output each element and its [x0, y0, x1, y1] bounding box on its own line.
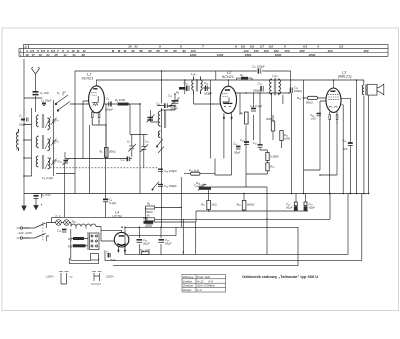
- wire left horizontals: [24, 98, 42, 176]
- svg-text:L₆L₇: L₆L₇: [191, 72, 197, 76]
- wire dropper to resistors: [71, 232, 88, 250]
- svg-text:50µF: 50µF: [286, 206, 293, 210]
- lamp Z1: [56, 220, 62, 226]
- capacitor C28 50uF: [137, 240, 143, 243]
- wire oscillator verticals: [151, 108, 162, 203]
- svg-text:C₂: C₂: [19, 114, 23, 118]
- svg-text:R₁₉: R₁₉: [72, 220, 77, 224]
- wire R5 column: [105, 125, 107, 159]
- wire y211 row: [196, 194, 308, 212]
- svg-text:R₁₀ 1kΩ: R₁₀ 1kΩ: [189, 168, 199, 172]
- volume potentiometer R16: [198, 184, 211, 191]
- svg-text:350pF: 350pF: [170, 107, 178, 111]
- svg-text:Krótkie: Krótkie: [183, 279, 192, 283]
- wire left bottom column: [42, 194, 146, 220]
- svg-text:C₁₃: C₁₃: [156, 102, 161, 106]
- svg-text:C₈ 5nF: C₈ 5nF: [41, 193, 51, 197]
- resistor R17: [207, 201, 211, 210]
- wire ground bus y193: [24, 193, 369, 195]
- wire y227 bus: [125, 227, 298, 265]
- antenna: [32, 67, 40, 80]
- svg-text:300: 300: [327, 49, 332, 53]
- svg-text:200pF: 200pF: [252, 89, 261, 93]
- wire tube L1 pins down: [83, 101, 106, 217]
- wire IF2 verticals: [272, 93, 283, 121]
- svg-text:C₁₂: C₁₂: [168, 94, 173, 98]
- capacitor C23 50pF: [236, 147, 241, 150]
- resistor R12: [280, 131, 283, 141]
- svg-text:R₇: R₇: [147, 214, 151, 218]
- svg-text:5nF: 5nF: [343, 147, 348, 151]
- wire AVC long: [291, 93, 293, 194]
- plug diagram 220V: [91, 272, 102, 285]
- resistor R8: [179, 87, 186, 90]
- switch W1 mains: [23, 222, 49, 240]
- svg-text:120V~: 120V~: [46, 275, 55, 279]
- svg-text:200pF: 200pF: [203, 92, 212, 96]
- wire y187 row: [198, 187, 267, 219]
- svg-text:R₈: R₈: [176, 91, 180, 95]
- wire L3 pins: [330, 112, 337, 194]
- svg-text:50µF: 50µF: [143, 242, 150, 246]
- mains terminals: [17, 227, 23, 239]
- wire x195 vertical: [196, 219, 267, 254]
- wire x303 vertical: [303, 80, 305, 194]
- wire y256 row: [105, 194, 362, 261]
- svg-text:4–12: 4–12: [197, 279, 204, 283]
- svg-text:70: 70: [164, 49, 168, 53]
- svg-text:4: 4: [316, 45, 319, 49]
- ground arrow main: [22, 202, 26, 211]
- svg-text:L: L: [20, 53, 22, 57]
- svg-text:2000: 2000: [308, 53, 316, 57]
- wire L3 grid resistor row: [304, 97, 327, 99]
- capacitor C24 100pF: [317, 114, 322, 116]
- capacitor C21: [258, 145, 263, 147]
- capacitor C18 100pF: [158, 169, 163, 171]
- transformer T1 (input coils band 1): [36, 114, 51, 130]
- capacitor C20: [251, 109, 256, 112]
- wire pot column: [209, 190, 244, 211]
- svg-text:49: 49: [80, 53, 85, 57]
- trimmer C7: [51, 159, 57, 166]
- wire y235 row: [129, 227, 176, 235]
- capacitor C19 100pF: [291, 88, 293, 94]
- svg-text:C₁ 5nF: C₁ 5nF: [40, 91, 49, 95]
- tube L3 6BL21: [326, 80, 341, 119]
- capacitor C29 50uF: [159, 240, 165, 243]
- svg-text:C₃: C₃: [56, 118, 60, 122]
- capacitor C10: [63, 159, 70, 166]
- wire HT top bus: [96, 80, 364, 85]
- svg-text:50pF: 50pF: [234, 151, 241, 155]
- svg-text:C₂₇: C₂₇: [104, 249, 109, 253]
- capacitor C2: [21, 118, 28, 122]
- band switch: [55, 92, 70, 111]
- svg-text:C₉: C₉: [106, 97, 110, 101]
- svg-text:UY1N: UY1N: [112, 215, 122, 219]
- variable capacitor C12 350pF: [171, 98, 180, 106]
- svg-text:R₆: R₆: [147, 202, 151, 206]
- svg-text:100: 100: [311, 117, 316, 121]
- svg-text:250: 250: [298, 49, 304, 53]
- svg-text:6CH21: 6CH21: [222, 75, 234, 79]
- svg-text:R₄ 1MΩ: R₄ 1MΩ: [115, 98, 125, 102]
- wire lamps feed: [51, 217, 147, 222]
- svg-text:140: 140: [253, 49, 258, 53]
- svg-text:17: 17: [31, 53, 35, 57]
- wire y219 row: [155, 194, 331, 220]
- svg-text:R₁₄: R₁₄: [297, 96, 302, 100]
- svg-text:1000: 1000: [190, 53, 197, 57]
- resistor R21: [73, 237, 84, 240]
- capacitor C11: [127, 157, 129, 162]
- svg-text:16: 16: [25, 53, 29, 57]
- svg-text:R₂₄ 1kΩ: R₂₄ 1kΩ: [140, 248, 150, 252]
- svg-text:R₈: R₈: [240, 73, 244, 77]
- wire C12 column: [162, 94, 176, 110]
- wire detector bus: [235, 93, 289, 115]
- wire x181 vertical: [155, 177, 182, 227]
- resistor R4 1M: [118, 103, 129, 106]
- tube L2 6CH21: [220, 80, 236, 120]
- wire top frame bus: [75, 71, 291, 88]
- svg-text:0,3MΩ: 0,3MΩ: [270, 155, 278, 159]
- resistor R24 1k: [141, 252, 149, 255]
- svg-text:Prod. zakr.: Prod. zakr.: [197, 275, 211, 279]
- wire antenna down: [35, 80, 37, 112]
- svg-text:1: 1: [336, 120, 338, 124]
- svg-text:R₉: R₉: [240, 111, 244, 115]
- parts table: [182, 275, 226, 293]
- wire C28 column: [139, 227, 161, 254]
- resistor R10 1k: [191, 172, 201, 175]
- wire mid column x189-210: [184, 159, 232, 176]
- svg-text:C₁₀: C₁₀: [121, 158, 126, 162]
- svg-text:~120...220V: ~120...220V: [17, 231, 33, 235]
- oscillator coil L osc: [158, 110, 166, 138]
- resistor R7: [146, 218, 155, 221]
- resistor R13: [266, 153, 269, 161]
- svg-text:1800: 1800: [275, 53, 282, 57]
- svg-text:200pF: 200pF: [104, 108, 113, 112]
- svg-text:41: 41: [71, 53, 76, 57]
- coil L frame antenna: [16, 129, 19, 151]
- svg-text:30kΩ: 30kΩ: [109, 150, 116, 154]
- capacitor C8 5nF with ground: [33, 194, 40, 199]
- svg-text:Długie: Długie: [183, 288, 192, 292]
- wire C8 line: [65, 152, 132, 159]
- capacitor C14: [187, 86, 189, 92]
- wire selector to tube: [101, 230, 125, 254]
- svg-text:C₁₄: C₁₄: [184, 81, 189, 85]
- lamp Z2: [64, 220, 70, 226]
- svg-text:50µF: 50µF: [309, 206, 316, 210]
- svg-text:60: 60: [148, 49, 152, 53]
- svg-text:1: 1: [98, 119, 100, 123]
- speaker: [367, 84, 384, 95]
- ground arrow left: [34, 198, 38, 209]
- voltage selector block: [90, 233, 100, 250]
- resistor R22: [73, 244, 86, 247]
- trimmer C tuning1: [128, 144, 136, 152]
- svg-text:220V~: 220V~: [105, 275, 115, 279]
- wire osc top: [162, 71, 172, 106]
- wire rectifier bottom: [71, 255, 362, 266]
- svg-text:C₁₁: C₁₁: [145, 140, 149, 144]
- svg-text:C₂₀ 0,1µF: C₂₀ 0,1µF: [250, 104, 263, 108]
- wire ganged dashed link: [50, 167, 158, 169]
- resistor R18: [242, 201, 246, 211]
- svg-text:R₁₇: R₁₇: [201, 203, 206, 207]
- wire left coil bus: [32, 100, 54, 176]
- capacitor C16 250pF: [261, 86, 263, 92]
- svg-text:C₁₆: C₁₆: [258, 82, 263, 86]
- svg-text:50pF: 50pF: [19, 123, 26, 127]
- wire y222 row: [147, 211, 196, 222]
- svg-text:11: 11: [76, 49, 79, 53]
- capacitor C1 50pF: [33, 92, 39, 95]
- wire x320 L: [304, 101, 338, 175]
- svg-text:C₂₆: C₂₆: [57, 229, 62, 233]
- wire mains column: [24, 223, 47, 242]
- resistor R25 100: [144, 221, 154, 224]
- wire x140 vertical: [130, 104, 148, 194]
- capacitor C9b 0.1uF: [103, 199, 108, 201]
- svg-text:6MΩ2: 6MΩ2: [247, 203, 255, 207]
- capacitor C26: [62, 230, 67, 233]
- svg-text:19: 19: [38, 53, 42, 57]
- wire detector lower: [246, 93, 268, 174]
- svg-text:Ż₁ Ż₂: Ż₁ Ż₂: [54, 215, 62, 219]
- svg-text:1: 1: [329, 120, 331, 124]
- svg-text:80: 80: [173, 49, 177, 53]
- svg-text:65: 65: [156, 49, 160, 53]
- svg-text:R₂₁: R₂₁: [68, 237, 72, 241]
- svg-text:C₁₀: C₁₀: [58, 160, 63, 164]
- svg-text:C₂₅: C₂₅: [342, 139, 347, 143]
- output transformer Tr: [362, 85, 366, 96]
- svg-text:350: 350: [363, 49, 368, 53]
- resistor R14 50k grid L3: [308, 96, 318, 99]
- svg-text:50: 50: [131, 49, 135, 53]
- svg-text:C₁₈ 100pF: C₁₈ 100pF: [164, 169, 177, 173]
- svg-text:1MΩ: 1MΩ: [284, 137, 290, 141]
- wire heater chain row: [49, 223, 101, 261]
- wire R8b stubs: [237, 78, 253, 80]
- svg-text:(6BL21): (6BL21): [338, 75, 352, 79]
- svg-text:21: 21: [45, 53, 50, 57]
- svg-text:1–2: 1–2: [197, 288, 202, 292]
- wire R24 row: [125, 219, 183, 254]
- resistor R5 30k: [105, 148, 108, 158]
- trimmer C5: [51, 139, 57, 146]
- svg-text:R₁₈: R₁₈: [237, 203, 242, 207]
- svg-text:C₅: C₅: [56, 139, 60, 143]
- capacitor C17 100pF inline: [258, 68, 260, 73]
- selector lower box: [91, 254, 99, 261]
- resistor R9 detector: [245, 112, 249, 124]
- svg-text:R₅: R₅: [100, 150, 104, 154]
- svg-text:C₄ 50pF: C₄ 50pF: [41, 99, 52, 103]
- resistor R8b screen: [241, 77, 248, 80]
- capacitor C27: [108, 253, 110, 258]
- resistor R15: [266, 163, 269, 171]
- resistor R11 2M: [271, 121, 274, 131]
- svg-text:100pF: 100pF: [294, 89, 302, 93]
- IF transformer L8-L9: [270, 78, 281, 95]
- resistor R6: [146, 206, 155, 209]
- svg-text:C₁₉ 250pF: C₁₉ 250pF: [164, 184, 177, 188]
- wire selector bottom link: [69, 258, 98, 264]
- plug diagram 120V: [59, 272, 73, 285]
- svg-text:0,1µF: 0,1µF: [109, 201, 116, 205]
- wire C13 row: [157, 105, 175, 107]
- svg-text:160: 160: [263, 49, 268, 53]
- capacitor C13 250pF: [165, 103, 168, 108]
- switch P2 osc: [156, 139, 164, 153]
- svg-text:3,5: 3,5: [339, 45, 344, 49]
- capacitor C19 250pF mid: [158, 185, 163, 187]
- svg-text:50µF: 50µF: [165, 242, 172, 246]
- tube L1 6CH21: [89, 80, 105, 118]
- switch P3: [152, 182, 159, 191]
- svg-text:Średnie: Średnie: [183, 283, 193, 288]
- svg-text:C₂: C₂: [127, 140, 131, 144]
- IF transformer L6-L7: [192, 77, 202, 95]
- wire tube L2 pins: [224, 120, 232, 175]
- svg-text:P₁: P₁: [57, 91, 60, 95]
- svg-text:L₈L₉: L₈L₉: [272, 74, 278, 78]
- svg-text:C₆ 0,1µF: C₆ 0,1µF: [42, 176, 53, 180]
- wire speaker columns: [341, 80, 369, 194]
- transformer T3 (band 3): [36, 155, 51, 169]
- dial scale strip: [19, 44, 388, 56]
- svg-text:1: 1: [91, 119, 93, 123]
- svg-text:Zakresy: Zakresy: [182, 275, 194, 279]
- svg-text:C₁₅: C₁₅: [204, 81, 209, 85]
- capacitor C25 5nF right: [348, 143, 353, 146]
- svg-text:2MΩ: 2MΩ: [265, 117, 272, 121]
- trimmer C3: [51, 118, 57, 125]
- svg-text:R₂₂: R₂₂: [68, 245, 73, 249]
- tube L4 UY1N rectifier: [114, 230, 129, 252]
- wire right frame: [347, 194, 349, 255]
- svg-text:1500: 1500: [245, 53, 252, 57]
- electrolytic C30: [294, 202, 297, 210]
- svg-text:C₁₇ 100pF: C₁₇ 100pF: [252, 65, 265, 69]
- capacitor C9 200pF: [109, 102, 111, 107]
- capacitor C15: [206, 86, 208, 92]
- svg-text:6CH21: 6CH21: [82, 77, 94, 81]
- wire switch to tube L1: [56, 71, 90, 217]
- svg-text:25: 25: [53, 53, 58, 57]
- wire detector resistor columns: [246, 115, 282, 187]
- svg-text:C₂₃: C₂₃: [233, 142, 238, 146]
- electrolytic C31: [304, 202, 307, 210]
- svg-text:C₂₁: C₂₁: [253, 141, 257, 145]
- svg-text:50kΩ: 50kΩ: [306, 101, 313, 105]
- trimmer C3b: [140, 145, 148, 153]
- svg-text:31: 31: [63, 53, 67, 57]
- svg-text:5nF: 5nF: [111, 258, 116, 262]
- capacitor C22 5nF: [244, 142, 249, 145]
- svg-text:200: 200: [283, 49, 289, 53]
- svg-text:2kΩ: 2kΩ: [211, 203, 217, 207]
- variable capacitor osc C: [147, 115, 155, 123]
- svg-text:1200: 1200: [217, 53, 224, 57]
- svg-text:90: 90: [182, 49, 186, 53]
- svg-text:518–1700kHz: 518–1700kHz: [197, 284, 215, 288]
- svg-text:100Ω: 100Ω: [145, 224, 152, 228]
- wire left vertical from scale: [23, 59, 25, 202]
- wire tube L1 plate right: [104, 103, 140, 105]
- svg-text:R₁₅: R₁₅: [270, 165, 275, 169]
- svg-text:3–8: 3–8: [208, 279, 213, 283]
- wire IF1 section: [185, 80, 220, 159]
- svg-text:55: 55: [139, 49, 143, 53]
- capacitor C4: [42, 104, 46, 106]
- svg-text:Odbiornik radiowy „Talisman” t: Odbiornik radiowy „Talisman” typ 306 U: [242, 274, 318, 279]
- transformer T2 (band 2): [36, 135, 51, 151]
- heater dropper R19: [71, 224, 96, 229]
